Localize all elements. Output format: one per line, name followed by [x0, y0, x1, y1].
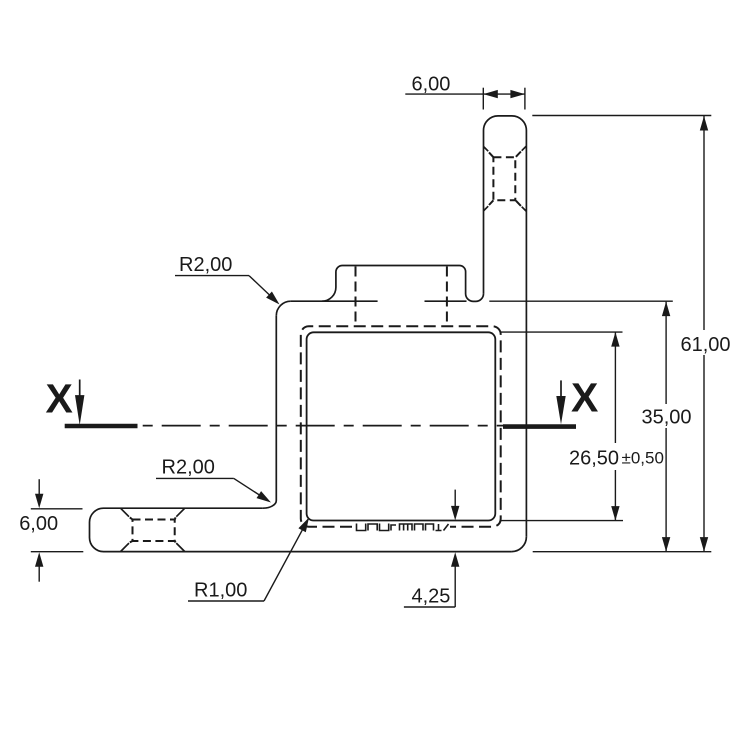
svg-text:61,00: 61,00: [681, 334, 731, 356]
section arrow right: [560, 380, 562, 398]
body top edge (left of hidden slot): [291, 300, 378, 302]
dimension 35,00 (body height): [489, 301, 673, 551]
bottom arm hidden hole (dashed rect): [133, 520, 175, 542]
svg-text:35,00: 35,00: [642, 407, 692, 429]
body bottom-right corner R2: [512, 537, 527, 552]
svg-text:±0,50: ±0,50: [622, 449, 664, 468]
radius leader R1,00 (pocket corner): [188, 518, 309, 602]
hidden slot in boss, right edge: [446, 267, 448, 327]
svg-text:4,25: 4,25: [412, 586, 451, 608]
boss outline: [322, 266, 484, 302]
dimension 61,00 (overall height): [532, 116, 711, 552]
radius leader R2,00 (inner fillet): [156, 478, 271, 502]
bottom arm top edge: [104, 507, 263, 509]
body bottom edge: [104, 551, 512, 553]
section arrow left: [79, 380, 81, 398]
svg-text:R1,00: R1,00: [194, 580, 247, 602]
svg-text:R2,00: R2,00: [162, 457, 215, 479]
bottom arm chamfer ticks: [121, 508, 185, 551]
section line thick (left): [65, 424, 138, 429]
svg-text:X: X: [571, 375, 598, 421]
svg-text:6,00: 6,00: [412, 74, 451, 96]
top arm chamfer hidden diagonals: [489, 152, 521, 206]
svg-text:6,00: 6,00: [19, 513, 58, 535]
svg-text:26,50: 26,50: [569, 448, 619, 470]
dimension 4,25 (wall thickness): [404, 490, 460, 607]
hidden slot in boss, left edge: [355, 267, 357, 327]
body top-left corner R2: [276, 301, 291, 316]
top arm and body right edge: [484, 116, 527, 537]
pocket outer hidden outline (dashed rounded rect): [301, 326, 501, 526]
body top edge (right of hidden slot): [425, 300, 467, 302]
body left edge: [275, 316, 277, 501]
knurl marks on pocket hidden bottom edge: [357, 524, 449, 531]
inner fillet R2 (arm to body): [263, 501, 277, 509]
top arm chamfer ticks: [484, 146, 527, 211]
svg-text:R2,00: R2,00: [179, 254, 232, 276]
dimension 26,50 +/-0,50 (pocket depth): [501, 332, 624, 520]
svg-text:X: X: [46, 376, 73, 422]
dimension 6,00 (bottom arm thickness): [31, 479, 84, 582]
centerline X-X (dash-dot): [143, 425, 503, 427]
top arm hidden hole (dashed rect): [493, 157, 515, 200]
bottom arm rounded left end: [90, 508, 104, 551]
dimension 6,00 (top arm width): [405, 88, 525, 110]
pocket inner wall outline: [307, 332, 496, 520]
section line thick (right): [503, 424, 576, 429]
radius leader R2,00 (top-left corner): [175, 276, 280, 305]
bottom arm chamfer hidden diagonals: [130, 517, 176, 542]
